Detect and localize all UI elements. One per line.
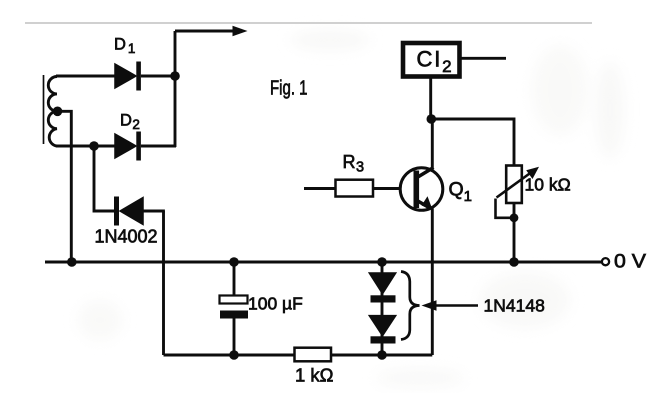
svg-text:0 V: 0 V [614, 251, 646, 273]
diode D1 [115, 62, 176, 91]
wire: output arrow [175, 26, 248, 37]
node: capacitor bottom [229, 350, 239, 360]
transistor Q1 [400, 168, 443, 211]
svg-text:100 µF: 100 µF [248, 294, 303, 314]
node: tap on 0V rail [67, 257, 77, 267]
wire: CI2 right lead [462, 57, 507, 60]
wire: center tap to 0V rail [58, 111, 72, 262]
wire: coil bottom to D2 anode [56, 145, 116, 148]
svg-text:1 kΩ: 1 kΩ [295, 365, 334, 386]
wire: collector up to node [431, 119, 434, 168]
wire: bottom rail left of 1k resistor [164, 354, 296, 357]
node: center tap [53, 107, 63, 117]
wire: coil top to D1 anode [56, 75, 116, 78]
wire: diode string vertical [381, 262, 384, 355]
annotation arrow to 1N4148 label [422, 300, 479, 311]
node: D1/D2 cathode junction [170, 71, 180, 81]
diode 1N4002 [114, 197, 165, 226]
potentiometer 10 kΩ [496, 166, 540, 263]
node: collector junction [427, 114, 437, 124]
wire: base input [304, 187, 336, 190]
wire: CI2 to collector node [429, 79, 432, 120]
transformer T1 core [43, 75, 45, 144]
svg-text:1N4002: 1N4002 [95, 227, 158, 247]
node: pot on 0V rail [509, 257, 519, 267]
wire: R3 to base [373, 187, 401, 190]
IC CI2 box [403, 43, 460, 77]
node: capacitor top [229, 257, 239, 267]
wire: emitter down to bottom rail [431, 209, 434, 356]
wire: collector node to pot branch [431, 119, 514, 166]
capacitor C1 100µF [220, 262, 249, 355]
terminal: 0V open circle [602, 258, 609, 265]
wire: bottom rail right of 1k resistor [331, 354, 432, 357]
diode D2 [115, 132, 176, 161]
node: coil bottom / 1N4002 branch [89, 141, 99, 151]
diode 1N4148 (upper) [369, 273, 396, 303]
transformer T1 winding [48, 77, 57, 147]
brace for 1N4148 pair [401, 272, 420, 340]
wire: 0V rail [45, 261, 602, 264]
resistor R3 [336, 180, 374, 197]
svg-text:1N4148: 1N4148 [484, 296, 545, 316]
node: diode string bottom [377, 350, 387, 360]
wire: branch down to 1N4002 [94, 146, 114, 211]
resistor 1 kΩ [295, 348, 332, 362]
diode 1N4148 (lower) [369, 316, 396, 344]
node: diode string top [377, 257, 387, 267]
svg-text:Fig. 1: Fig. 1 [270, 77, 308, 100]
wire: 1N4002 to bottom rail (crosses 0V rail) [162, 211, 165, 355]
node: pot wiper tie [510, 213, 519, 222]
wire: cathode junction vertical [174, 31, 177, 147]
faint scan line top [25, 22, 592, 24]
svg-text:10 kΩ: 10 kΩ [525, 175, 571, 195]
faint scan blotches [78, 30, 624, 387]
